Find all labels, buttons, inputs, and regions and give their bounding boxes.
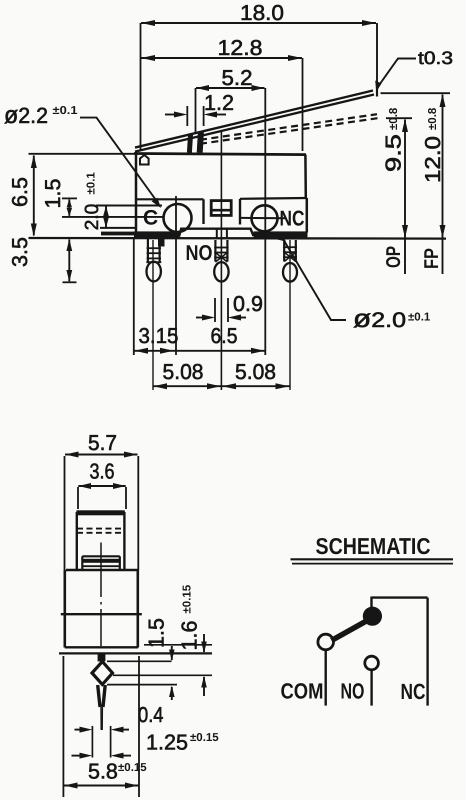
lever clamp bars — [189, 134, 190, 153]
dimension 5.2 — [196, 66, 265, 133]
title underline double — [291, 558, 454, 560]
svg-text:3.15: 3.15 — [139, 324, 179, 348]
svg-text:NC: NC — [280, 207, 305, 231]
svg-text:1.6: 1.6 — [178, 621, 202, 651]
svg-text:6.5: 6.5 — [211, 324, 238, 348]
dimension 3.6 — [78, 460, 126, 510]
svg-text:3.6: 3.6 — [90, 460, 115, 484]
plunger window rect — [211, 201, 231, 216]
wire NC vertical — [426, 598, 428, 706]
svg-text:0.4: 0.4 — [138, 703, 164, 727]
svg-text:1.5: 1.5 — [41, 179, 65, 209]
svg-text:0.9: 0.9 — [233, 292, 263, 316]
pin width ticks — [91, 726, 93, 758]
pin stub — [98, 654, 106, 662]
svg-text:SCHEMATIC: SCHEMATIC — [316, 533, 431, 559]
leader dia 2.0 — [275, 232, 431, 333]
dimension 9.5 +-0.8 right — [382, 107, 413, 274]
svg-text:t0.3: t0.3 — [418, 48, 453, 68]
switch body outline — [134, 154, 308, 239]
pin below diamond — [98, 685, 106, 730]
pivot hook — [140, 155, 149, 165]
svg-text:5.2: 5.2 — [222, 66, 253, 90]
wire NO vertical — [370, 670, 372, 706]
dimension 3.5 left — [8, 237, 77, 282]
svg-text:±0.1: ±0.1 — [86, 172, 98, 195]
svg-text:18.0: 18.0 — [240, 1, 284, 25]
wire stub from contact dot — [370, 597, 372, 608]
svg-text:COM: COM — [281, 679, 324, 704]
svg-text:NC: NC — [401, 679, 426, 704]
svg-text:5.08: 5.08 — [235, 360, 276, 384]
side body box — [59, 570, 212, 653]
svg-text:1.2: 1.2 — [204, 91, 234, 115]
svg-text:±0.15: ±0.15 — [118, 762, 147, 774]
switch lever arm — [332, 620, 369, 641]
label dia 2.2 +-0.1 with leader — [4, 102, 161, 208]
left foot of body — [100, 228, 136, 236]
dimension 12.0 +-0.8 right — [381, 93, 451, 274]
svg-text:NO: NO — [341, 679, 365, 704]
svg-text:ø2.2: ø2.2 — [4, 102, 48, 129]
wire COM vertical — [325, 650, 327, 706]
svg-text:±0.8: ±0.8 — [427, 107, 439, 130]
plunger guide block — [82, 556, 120, 569]
svg-text:5.8: 5.8 — [88, 760, 118, 784]
dimension 12.8 — [141, 36, 303, 151]
svg-text:OP: OP — [383, 246, 405, 268]
COM terminal circle — [318, 634, 334, 650]
svg-text:±0.15: ±0.15 — [182, 584, 194, 613]
pin crimp diamond — [92, 662, 113, 685]
terminal pin 1 (C) — [146, 234, 164, 391]
NO terminal circle — [365, 656, 379, 670]
svg-text:5.7: 5.7 — [88, 431, 117, 455]
svg-text:1.25: 1.25 — [146, 731, 188, 755]
wire top horizontal — [372, 596, 428, 598]
dimension 1.6 +-0.15 side — [178, 584, 207, 696]
terminal pin 2 (NO) — [214, 240, 228, 281]
dimension 0.9 — [196, 292, 263, 322]
center extension line through pin 2 — [220, 132, 222, 390]
dimension 1.25 +-0.15 — [72, 731, 220, 759]
svg-text:6.5: 6.5 — [8, 177, 32, 207]
terminal pin 3 (NC) — [283, 240, 297, 390]
svg-text:9.5: 9.5 — [382, 134, 406, 172]
svg-text:3.5: 3.5 — [8, 237, 32, 267]
svg-text:±0.15: ±0.15 — [190, 732, 219, 744]
svg-text:12.0: 12.0 — [421, 136, 445, 183]
dimension line 3.15 / 6.5 — [134, 324, 265, 354]
svg-text:5.08: 5.08 — [163, 360, 204, 384]
C terminal circle — [164, 204, 192, 232]
lever tip end cap — [376, 82, 378, 97]
NC terminal circle — [252, 205, 278, 231]
svg-text:±0.1: ±0.1 — [408, 312, 431, 324]
lever solid lines — [135, 91, 373, 148]
dimension 0.4 — [75, 703, 164, 733]
dimension 1.5 side — [145, 618, 175, 700]
right reference lines — [107, 645, 212, 685]
lever dashed (free position) — [200, 114, 377, 140]
baseline (mounting plane) — [29, 237, 447, 240]
bottom extension lines — [134, 88, 265, 355]
svg-text:12.8: 12.8 — [218, 36, 263, 60]
svg-text:1.5: 1.5 — [145, 618, 169, 648]
button cap — [76, 510, 125, 570]
center line — [100, 543, 102, 647]
label t0.3 with leader — [375, 48, 453, 92]
svg-text:±0.1: ±0.1 — [53, 105, 79, 117]
NC circle horizontal centerline — [241, 217, 286, 219]
dimension 5.8 +-0.15 — [63, 656, 147, 797]
svg-text:NO: NO — [186, 241, 213, 265]
dimension 6.5 left — [8, 155, 37, 237]
svg-text:2.0: 2.0 — [82, 204, 103, 230]
svg-text:C: C — [143, 207, 158, 230]
dimension 5.7 — [65, 431, 139, 570]
dimension 1.2 — [165, 91, 234, 126]
dimension line 5.08 / 5.08 — [153, 360, 290, 389]
dimension 18.0 top — [141, 1, 378, 150]
svg-text:FP: FP — [421, 248, 443, 269]
dimension 2.0 +-0.1 left — [82, 172, 109, 231]
left reference lines — [29, 154, 164, 217]
dimension 1.5 left — [41, 179, 72, 217]
contact dot — [363, 607, 382, 626]
svg-text:ø2.0: ø2.0 — [353, 305, 406, 333]
